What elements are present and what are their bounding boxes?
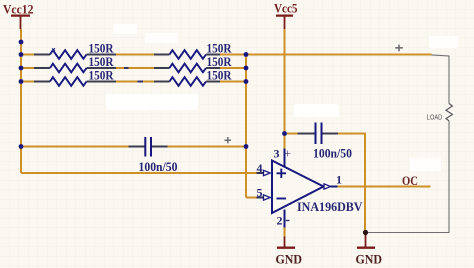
svg-text:4: 4 [257,161,263,175]
svg-text:100n/50: 100n/50 [313,145,352,160]
junction right bus row1 [244,52,249,57]
minus symbol inside op-amp [277,198,287,200]
ground GND right [356,233,383,267]
load branch wire (gray) top segment [432,55,450,104]
resistor 150R row2 right [154,64,220,73]
load branch wire (gray) bottom segment [368,121,449,233]
load resistor zigzag [446,104,452,121]
wire row 1 left stub [21,54,34,56]
svg-text:1: 1 [336,173,342,187]
wire output to OC [338,186,431,188]
svg-text:INA196DBV: INA196DBV [297,200,363,214]
svg-text:2: 2 [277,214,283,228]
svg-text:150R: 150R [89,55,115,69]
pin name - for pin 2 [286,220,290,222]
wire C1 filter left segment [21,146,129,148]
wire row 1 right stub [220,54,246,56]
junction Vcc12 filter tap [19,144,24,149]
white patch near top-left erased text [113,24,137,34]
gray plus mark near C1 wire [225,137,232,143]
junction Vcc5 at C2 [282,131,287,136]
wire row 2 right stub [220,67,246,69]
pin 5 arrow [264,195,271,200]
svg-text:100n/50: 100n/50 [139,159,178,174]
svg-text:GND: GND [276,252,303,267]
pin 2 lead [284,210,286,228]
op-amp U1 INA196DBV triangle [272,161,324,214]
wire row 1 middle [116,54,154,56]
wire C2 right segment down to ground junction [338,134,365,233]
power Vcc12 [3,1,34,29]
wire row 3 right stub [220,81,246,83]
junction right bus filter tap [244,144,249,149]
wire C2 left segment [285,133,298,135]
pin 1 lead [331,186,338,188]
wire top rail to load [246,54,432,56]
power Vcc5 [274,1,298,29]
pin 1 output arrow [324,184,331,189]
svg-text:5: 5 [257,186,263,200]
white patch above right resistor labels [145,33,178,43]
svg-text:Vcc5: Vcc5 [274,1,298,16]
wire right bus to pin 5 [246,197,257,199]
junction right bus row2 [244,66,249,71]
wire Vcc12 bus (left vertical) [20,29,22,173]
junction right bus row3 [244,79,249,84]
wire row 3 left stub [21,81,34,83]
tiny x artifact at row1 left resistor start [52,48,55,51]
pin 4 lead [257,172,264,174]
pin 5 lead [257,197,264,199]
svg-text:150R: 150R [89,41,115,55]
resistor 150R row1 left [34,50,116,59]
svg-text:Vcc12: Vcc12 [3,1,34,16]
residue dash on row 3 wire [138,81,144,83]
plus symbol inside op-amp [277,169,287,178]
svg-text:150R: 150R [207,69,233,83]
wire C1 filter right segment [168,146,247,148]
wire pin 2 to ground [284,228,286,237]
white patch above capacitor C2 [294,104,339,117]
svg-text:150R: 150R [207,41,233,55]
gray plus mark on top rail [395,45,403,52]
wire Vcc5 vertical [284,29,286,134]
resistor 150R row2 left [34,64,116,73]
junction Vcc12 row3 [19,79,24,84]
svg-text:+: + [284,146,291,160]
wire right bus vertical [245,55,247,198]
white patch right of C2 label [410,158,441,171]
pin 4 arrow [264,170,271,175]
junction at right ground [363,230,368,235]
svg-text:150R: 150R [207,55,233,69]
junction Vcc12 row1 [19,52,24,57]
junction Vcc12 row2 [19,66,24,71]
resistor 150R row3 right [154,77,220,86]
residue dash on row 2 wire [124,67,129,69]
pin 3 lead [284,149,286,168]
junction Vcc12 bus top [19,40,24,45]
wire pin 3 vertical [284,134,286,149]
wire row 2 middle [116,67,154,69]
resistor 150R row1 right [154,50,220,59]
svg-text:OC: OC [402,173,418,188]
svg-text:3: 3 [274,147,280,161]
wire lower rail to pin 4 [21,172,257,174]
white patch middle left of schematic [106,94,198,110]
svg-text:LOAD: LOAD [427,114,442,121]
ground GND left [276,237,303,267]
svg-text:GND: GND [356,252,383,267]
wire row 2 left stub [21,67,34,69]
capacitor C2 100n/50 [298,123,339,145]
wire row 3 middle [116,81,154,83]
capacitor C1 100n/50 [129,137,168,157]
resistor 150R row3 left [34,77,116,86]
svg-text:150R: 150R [89,69,115,83]
white patch top right [429,36,458,48]
